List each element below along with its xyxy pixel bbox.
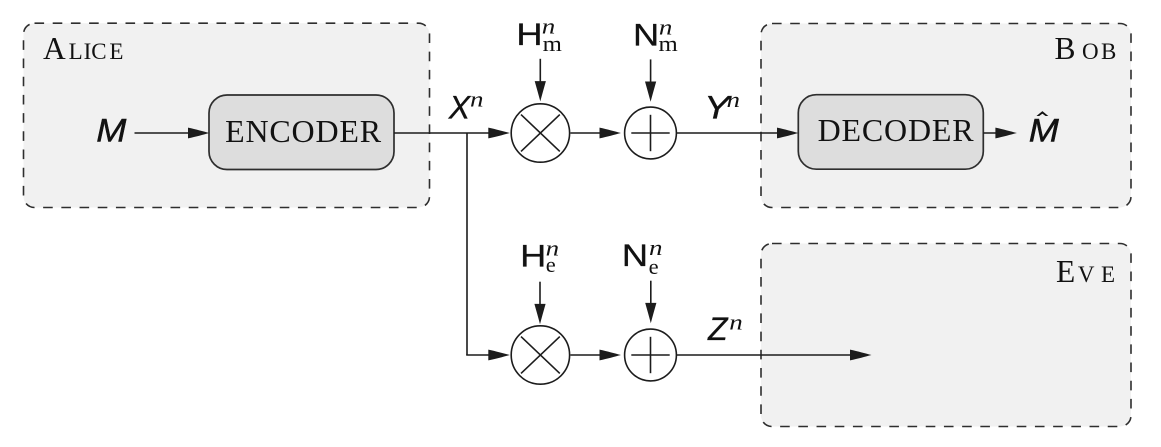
encoder block U1 — [209, 95, 394, 170]
arrowhead into top multiplier — [488, 128, 510, 139]
wire multiplier to adder top — [571, 132, 602, 134]
arrowhead H_m into multiplier — [535, 81, 546, 101]
svg-text:e: e — [546, 252, 556, 277]
svg-text:Z: Z — [707, 311, 729, 347]
wire encoder to multiplier (node Xn) — [394, 132, 503, 134]
arrowhead N_m into adder — [645, 82, 656, 102]
adder plus strokes bottom — [631, 354, 669, 356]
wire adder to decoder (node Yn) — [676, 132, 790, 134]
svg-text:H: H — [520, 239, 546, 274]
svg-text:X: X — [448, 89, 472, 125]
arrowhead at Mhat — [995, 128, 1017, 139]
wire adder to Eve (node Zn) — [676, 354, 863, 356]
svg-text:N: N — [622, 238, 648, 273]
Alice dashed box — [24, 23, 430, 207]
wire H_m arrow — [539, 59, 541, 84]
wire branch vertical from node Xn — [466, 133, 468, 355]
wire multiplier to adder bottom — [571, 354, 602, 356]
adder circle bottom — [625, 329, 677, 381]
arrowhead N_e into bottom adder — [645, 303, 656, 323]
wire N_m arrow — [650, 59, 652, 84]
svg-text:N: N — [633, 18, 659, 53]
svg-text:n: n — [729, 310, 742, 334]
svg-text:M: M — [1029, 113, 1060, 149]
arrowhead into decoder — [777, 128, 799, 139]
decoder block U2 — [798, 95, 983, 170]
wire N_e arrow — [650, 281, 652, 305]
Bob dashed box — [761, 24, 1131, 208]
adder plus strokes top — [631, 132, 669, 134]
svg-text:ENCODER: ENCODER — [225, 113, 382, 149]
arrowhead into Eve box — [850, 350, 872, 361]
multiplier circle bottom — [511, 326, 569, 384]
wire H_e arrow — [539, 282, 541, 306]
Eve dashed box — [761, 244, 1131, 427]
svg-text:m: m — [659, 32, 679, 57]
multiplier X strokes top — [521, 115, 560, 152]
svg-text:DECODER: DECODER — [818, 112, 975, 148]
arrowhead into bottom adder — [600, 350, 622, 361]
arrowhead into encoder — [188, 128, 210, 139]
wire M to encoder — [135, 132, 202, 134]
adder circle top — [625, 107, 677, 159]
hat accent over Mhat — [1038, 112, 1048, 116]
wire branch to bottom multiplier — [466, 354, 503, 356]
svg-text:M: M — [96, 113, 127, 149]
svg-text:n: n — [470, 87, 483, 111]
svg-text:e: e — [649, 254, 659, 279]
multiplier circle top — [511, 104, 569, 162]
svg-text:n: n — [727, 88, 740, 112]
arrowhead into top adder — [600, 128, 622, 139]
wire decoder to Mhat — [983, 132, 1009, 134]
arrowhead H_e into bottom multiplier — [534, 304, 545, 324]
arrowhead into bottom multiplier — [488, 350, 510, 361]
svg-text:m: m — [543, 32, 563, 57]
multiplier X strokes bottom — [521, 337, 560, 374]
svg-text:H: H — [516, 17, 542, 52]
